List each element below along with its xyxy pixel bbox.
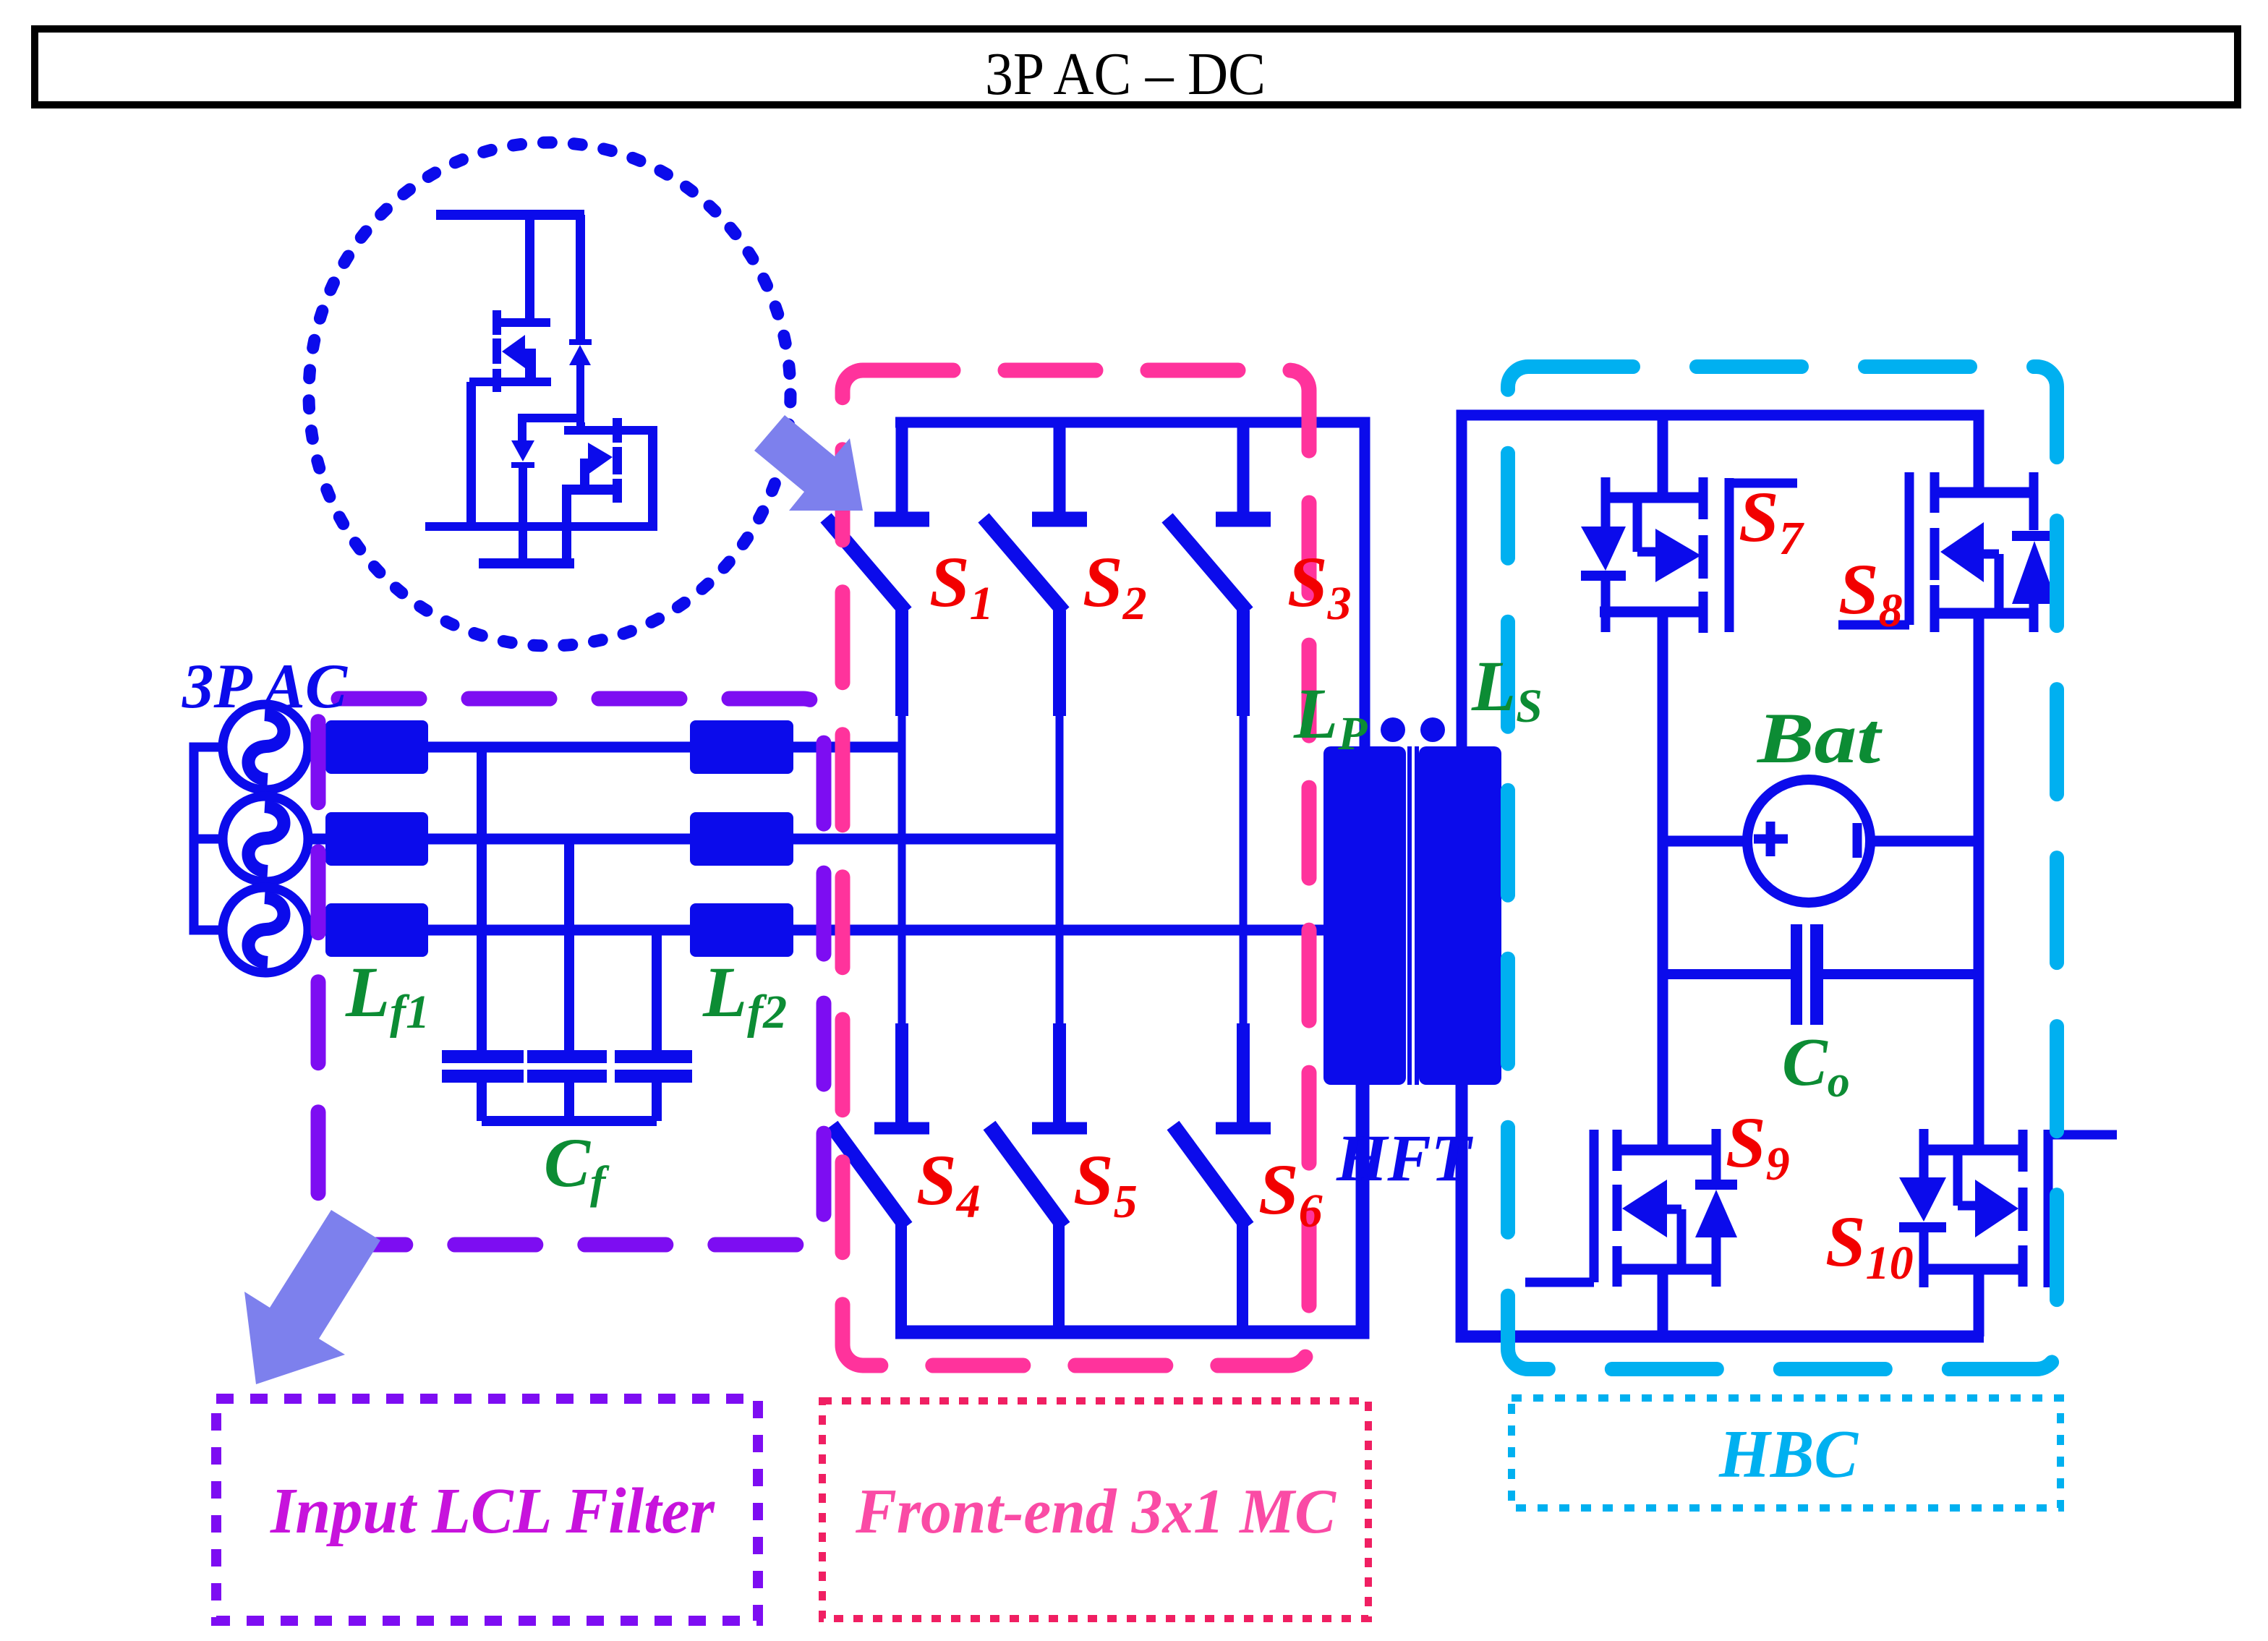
arrow to Front-end MC [754, 415, 863, 511]
SECTION PLACEHOLDERS [309, 142, 790, 646]
svg-text:HFT: HFT [1336, 1121, 1474, 1195]
diode D-b (lower diode of cell) [511, 422, 534, 531]
AC source V3 [223, 887, 308, 973]
dashed box HBC region [1508, 367, 2057, 1369]
transformer HFT secondary winding LS [1419, 746, 1501, 1085]
wire: column 3 [1237, 610, 1250, 1124]
wire: Q-a drain drop [525, 215, 534, 323]
svg-text:3P AC: 3P AC [182, 652, 348, 722]
label box Front-end 3x1 MC [822, 1401, 1368, 1619]
wire: phase row 1 [308, 742, 902, 753]
transistor Q-b (lower MOSFET of bidirectional cell) [562, 418, 657, 531]
label box HBC [1512, 1398, 2060, 1508]
wire: cap common bus [482, 1116, 657, 1126]
svg-text:Bat: Bat [1757, 698, 1883, 778]
wire: source mid stub [194, 835, 223, 844]
wire: phase row 3 [308, 925, 1333, 936]
svg-text:Input LCL Filter: Input LCL Filter [270, 1475, 715, 1547]
dashed box Input LCL Filter region [318, 699, 824, 1245]
battery Bat [1668, 780, 1974, 903]
wire: column 2 [1053, 610, 1066, 1124]
transistor Q-a (upper MOSFET of bidirectional cell) [469, 310, 551, 392]
capacitor Cf phase 1 [442, 1050, 524, 1083]
wire: cap drop 3 [652, 930, 662, 1050]
wire: phase row 2 [308, 834, 1060, 845]
AC source V2 [223, 796, 308, 882]
wire: S7 drain drop [1658, 415, 1668, 498]
switch S5 [989, 1125, 1087, 1227]
capacitor Cf phase 3 [615, 1050, 692, 1083]
wire: cell top bar [436, 210, 584, 220]
svg-text:Front-end 3x1 MC: Front-end 3x1 MC [855, 1477, 1336, 1547]
diode D-a (upper diode of cell) [569, 215, 592, 422]
wire: column 1 [895, 610, 908, 1124]
transistor S7 [1581, 477, 1797, 633]
polarity dot secondary [1420, 717, 1445, 742]
transistor S10 [1899, 1129, 2117, 1287]
arrow to Input LCL Filter [244, 1210, 380, 1384]
switch S1 [826, 422, 929, 612]
inductor Lf2 phase 3 [690, 903, 793, 957]
wire: S8 source rail down to S10 [1974, 613, 1984, 1150]
wire: cell left source wire [466, 382, 476, 527]
title box [35, 29, 2238, 108]
wire: cap drop 2 [564, 839, 574, 1050]
transformer HFT primary winding LP [1323, 746, 1406, 1085]
wire: cap lower stub 2 [564, 1083, 574, 1121]
svg-text:3P AC – DC: 3P AC – DC [985, 41, 1266, 108]
polarity dot primary [1381, 717, 1405, 742]
inductor Lf1 phase 1 [325, 720, 428, 774]
dotted detail circle [309, 142, 790, 646]
wire: cap lower stub 1 [477, 1083, 487, 1121]
switch S2 [984, 422, 1087, 612]
wire: HBC bottom bus [1462, 1085, 1984, 1337]
wire: cell bottom stub right [562, 531, 571, 563]
svg-text:HBC: HBC [1718, 1417, 1859, 1492]
capacitor Cf phase 2 [527, 1050, 607, 1083]
wire: cell bottom stub left [519, 531, 527, 560]
transformer core lines [1407, 746, 1419, 1085]
wire: S4 to bottom bus [895, 1224, 907, 1332]
wire: S9 source to bottom bus [1658, 1269, 1668, 1337]
AC source V1 [223, 704, 308, 790]
wire: S6 to bottom bus [1237, 1224, 1248, 1332]
switch S4 [832, 1125, 929, 1227]
wire: source left bus [194, 747, 223, 930]
wire: cell bottom bar [425, 522, 657, 531]
inductor Lf2 phase 2 [690, 812, 793, 866]
switch S3 [1167, 422, 1271, 612]
capacitor Co [1668, 924, 1974, 1025]
wire: S7 source rail down to S9 [1658, 612, 1668, 1150]
wire: MC bottom bus [895, 1085, 1363, 1332]
wire: cell cross connect [518, 414, 581, 422]
transistor S8 [1838, 472, 2058, 632]
label box Input LCL Filter [216, 1399, 758, 1621]
wire: S5 to bottom bus [1053, 1224, 1065, 1332]
dashed box Front-end 3x1 MC region [843, 370, 1309, 1365]
wire: S10 source to bottom bus [1974, 1269, 1984, 1337]
wire: cell bottom terminal bar [479, 558, 574, 568]
wire: cap lower stub 3 [652, 1083, 662, 1121]
wire: MC top bus [895, 422, 1365, 746]
inductor Lf1 phase 2 [325, 812, 428, 866]
wire: cap drop 1 [477, 747, 487, 1050]
inductor Lf2 phase 1 [690, 720, 793, 774]
wire: HBC top bus [1462, 415, 1979, 746]
transistor S9 [1525, 1129, 1737, 1287]
inductor Lf1 phase 3 [325, 903, 428, 957]
switch S6 [1173, 1125, 1271, 1227]
